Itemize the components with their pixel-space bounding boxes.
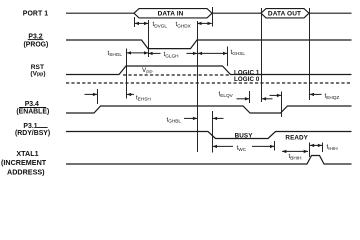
svg-text:tGLGH: tGLGH xyxy=(164,51,179,58)
svg-text:tGHBL: tGHBL xyxy=(167,116,182,123)
svg-text:(ENABLE): (ENABLE) xyxy=(16,108,49,115)
svg-text:(Vpp): (Vpp) xyxy=(30,71,45,78)
svg-text:tBHIH: tBHIH xyxy=(289,153,302,160)
svg-text:tSHGL: tSHGL xyxy=(108,50,123,57)
svg-text:ADDRESS): ADDRESS) xyxy=(7,167,45,176)
svg-text:BUSY: BUSY xyxy=(235,132,254,139)
svg-text:tWC: tWC xyxy=(237,145,247,152)
svg-text:PORT 1: PORT 1 xyxy=(23,11,49,18)
svg-text:LOGIC 0: LOGIC 0 xyxy=(234,76,260,83)
svg-text:tEHSH: tEHSH xyxy=(136,94,151,101)
svg-text:tELQV: tELQV xyxy=(219,91,234,98)
svg-text:XTAL1: XTAL1 xyxy=(16,149,38,158)
svg-text:DATA OUT: DATA OUT xyxy=(268,11,301,18)
svg-text:tIHIH: tIHIH xyxy=(327,144,338,151)
svg-text:(INCREMENT: (INCREMENT xyxy=(1,158,47,167)
svg-text:(RDY/BSY): (RDY/BSY) xyxy=(15,130,50,137)
svg-text:VPP: VPP xyxy=(142,67,153,75)
svg-text:tGHSL: tGHSL xyxy=(231,49,246,56)
svg-text:tGHDX: tGHDX xyxy=(176,21,192,28)
svg-text:tDVGL: tDVGL xyxy=(153,21,168,28)
svg-text:P3.4: P3.4 xyxy=(25,101,39,108)
svg-text:(PROG): (PROG) xyxy=(23,41,48,48)
svg-text:tEHQZ: tEHQZ xyxy=(325,93,340,100)
svg-text:READY: READY xyxy=(285,134,308,141)
svg-text:DATA IN: DATA IN xyxy=(158,11,184,18)
